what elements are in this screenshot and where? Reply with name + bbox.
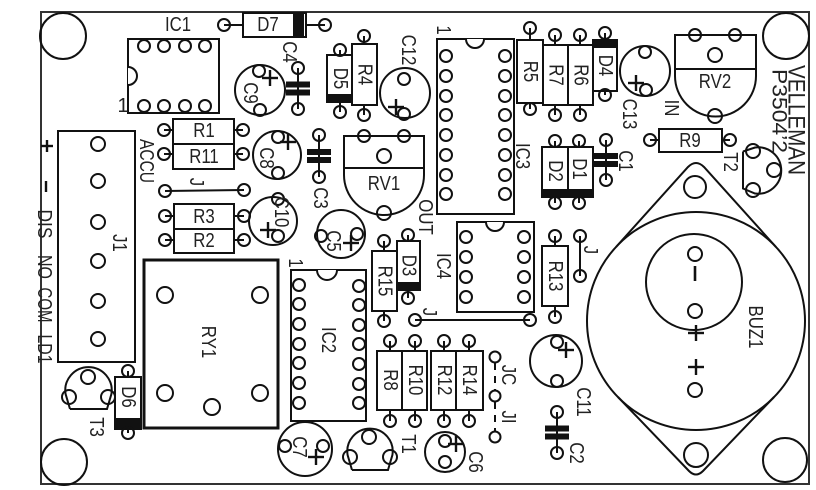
svg-text:NO: NO [33,255,55,279]
svg-text:ACCU: ACCU [135,139,157,183]
svg-text:1: 1 [432,25,454,34]
trimmer RV2 [675,29,756,123]
svg-text:R9: R9 [679,130,701,152]
wire jumper JI [490,402,520,443]
svg-text:T3: T3 [85,417,107,437]
resistor R8 and R10 [377,335,427,427]
capacitor C4 [278,41,310,115]
op-amp IC3 [432,25,533,214]
resistor R13 [542,230,568,323]
diode D5 [327,44,353,118]
capacitor C7 [278,422,332,476]
diode D2 and D1 [542,135,593,209]
mounting hole bottom-left [41,439,87,485]
capacitor C12 [380,35,430,120]
svg-text:C10: C10 [270,197,292,228]
svg-text:C1: C1 [614,150,636,172]
capacitor C11 [530,335,594,417]
resistor R12 and R14 [431,335,483,427]
wire jumper J3 [574,230,601,282]
transistor T1 [343,429,419,470]
svg-text:C7: C7 [288,436,310,458]
svg-text:COM: COM [33,288,55,323]
svg-text:IC4: IC4 [432,253,454,279]
svg-text:R11: R11 [189,146,219,168]
svg-text:RV2: RV2 [699,71,731,93]
transistor T2 [719,144,781,197]
svg-text:D2: D2 [544,160,566,182]
svg-text:C2: C2 [565,442,587,464]
svg-text:J: J [418,308,440,316]
trimmer RV1 [344,130,424,220]
resistor R3 and R2 [159,204,250,253]
op-amp IC1 [117,14,219,117]
connector J1 [58,131,135,362]
svg-text:JC: JC [497,365,519,386]
label - [45,181,47,192]
svg-text:C3: C3 [309,187,331,209]
svg-text:R13: R13 [544,261,566,292]
svg-text:J: J [579,246,601,254]
svg-text:R15: R15 [374,266,396,297]
svg-text:1: 1 [117,95,128,117]
mounting hole top-left [40,13,86,59]
svg-text:R4: R4 [354,64,376,86]
resistor R7 [543,29,568,121]
svg-text:RY1: RY1 [197,326,219,358]
svg-text:R3: R3 [193,206,215,228]
svg-text:R7: R7 [545,64,567,86]
svg-text:DIS: DIS [33,210,55,239]
svg-text:C4: C4 [278,41,300,63]
svg-text:RV1: RV1 [368,173,400,195]
svg-text:D1: D1 [568,158,590,180]
capacitor C3 [307,129,331,209]
resistor R9 [644,129,736,152]
svg-text:VELLEMAN: VELLEMAN [783,65,810,175]
svg-text:R10: R10 [404,365,426,396]
svg-text:R1: R1 [193,120,215,142]
resistor R4 [352,30,377,121]
svg-text:D7: D7 [257,14,279,36]
resistor R15 [372,235,397,327]
svg-text:IC3: IC3 [511,143,533,169]
svg-text:OUT: OUT [414,199,436,235]
resistor R5 [517,22,543,115]
svg-text:T2: T2 [719,152,741,172]
capacitor C1 [594,134,636,186]
capacitor C5 [315,210,365,258]
capacitor C9 [235,65,285,116]
svg-text:D4: D4 [594,55,616,77]
svg-text:D3: D3 [398,255,420,277]
svg-text:C11: C11 [572,387,594,417]
svg-text:D5: D5 [329,68,351,90]
svg-text:R2: R2 [193,230,215,252]
svg-text:J: J [185,178,207,186]
svg-text:T1: T1 [397,434,419,454]
diode D6 [115,365,141,439]
op-amp IC2 [284,258,366,421]
resistor R1 and R11 [158,119,249,169]
svg-text:R14: R14 [458,365,480,396]
diode D4 [593,27,617,101]
op-amp IC4 [432,222,534,312]
relay RY1 [144,260,278,428]
svg-text:C9: C9 [239,82,261,104]
svg-text:D6: D6 [117,386,139,408]
mounting hole bottom-right [763,438,807,482]
svg-text:C5: C5 [322,230,344,252]
capacitor C13 [618,46,670,129]
label + [41,145,53,147]
capacitor C6 [425,432,486,473]
wire jumper JC [490,352,520,402]
svg-text:LD1: LD1 [33,335,55,364]
diode D7 [218,13,331,37]
transistor T3 [62,367,115,437]
capacitor C8 [253,131,301,179]
svg-text:C13: C13 [618,99,640,130]
svg-text:R5: R5 [519,61,541,83]
svg-text:C8: C8 [255,147,277,169]
svg-text:1: 1 [284,258,306,267]
svg-text:JI: JI [497,410,519,423]
svg-text:R12: R12 [433,365,455,396]
svg-text:R8: R8 [379,369,401,391]
svg-text:IN: IN [660,100,682,117]
diode D3 [397,229,420,304]
svg-text:C6: C6 [464,451,486,473]
mounting hole top-right [763,13,809,59]
svg-text:BUZ1: BUZ1 [744,306,766,349]
svg-text:IC2: IC2 [317,327,339,353]
capacitor C10 [249,193,297,245]
resistor R6 [568,29,593,121]
capacitor C2 [545,406,587,464]
wire jumper J [159,178,250,197]
svg-text:IC1: IC1 [165,14,191,36]
buzzer BUZ1 [587,163,805,475]
wire jumper J2 [409,308,536,326]
svg-text:R6: R6 [570,64,592,86]
svg-text:J1: J1 [108,234,130,252]
svg-text:C12: C12 [397,35,419,66]
